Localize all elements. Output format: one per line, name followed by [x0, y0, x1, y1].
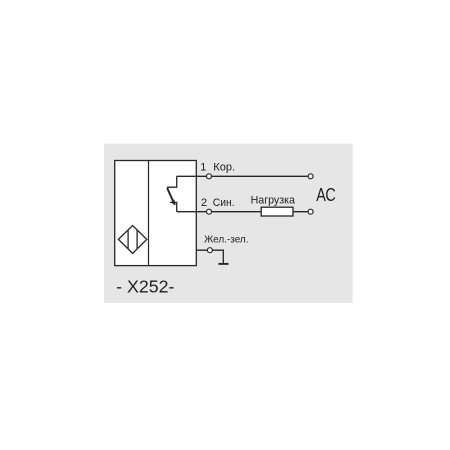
- sensor body divider: [148, 161, 150, 266]
- load resistor (Нагрузка): [261, 207, 293, 216]
- wire: terminal 2 line (Син.) to load: [177, 211, 308, 213]
- switch contact S1 (output element): [167, 176, 177, 211]
- terminal circle 1: [207, 174, 212, 179]
- svg-text:- Х252-: - Х252-: [116, 277, 174, 297]
- AC supply circle top: [308, 174, 313, 179]
- sensor body U1: [115, 161, 197, 266]
- wire: terminal 3 line (Жел.-зел.): [196, 250, 223, 263]
- wire: terminal 1 line (Кор.): [177, 175, 308, 177]
- terminal circle 2: [207, 209, 212, 214]
- switch blade with arrow: [167, 188, 173, 202]
- sensing element (diamond): [118, 226, 146, 254]
- gray schematic panel background: [104, 144, 353, 303]
- svg-text:АС: АС: [316, 185, 336, 205]
- svg-text:Син.: Син.: [213, 197, 235, 209]
- terminal circle 3: [207, 248, 212, 253]
- svg-text:Нагрузка: Нагрузка: [251, 194, 296, 206]
- svg-text:Жел.-зел.: Жел.-зел.: [204, 234, 248, 246]
- ground: [218, 263, 228, 265]
- svg-text:Кор.: Кор.: [213, 161, 235, 173]
- svg-text:2: 2: [201, 197, 207, 209]
- AC supply circle bottom: [308, 209, 313, 214]
- svg-text:1: 1: [200, 161, 206, 173]
